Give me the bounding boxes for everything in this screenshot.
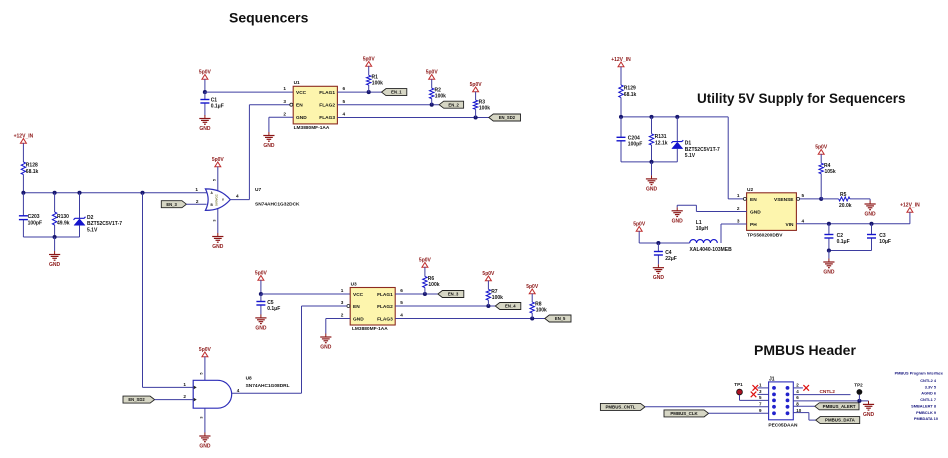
svg-text:VCC: VCC [353, 292, 364, 298]
svg-text:VCC: VCC [296, 90, 307, 96]
svg-text:PMBDATA 10: PMBDATA 10 [914, 416, 938, 421]
svg-text:1: 1 [195, 187, 198, 192]
svg-text:EN: EN [353, 304, 360, 310]
svg-text:4: 4 [802, 218, 805, 223]
svg-text:SN74AHC1G32DCK: SN74AHC1G32DCK [255, 201, 300, 207]
svg-text:J1: J1 [769, 376, 775, 382]
svg-text:5: 5 [400, 300, 403, 305]
svg-text:GND: GND [199, 444, 211, 450]
svg-text:5p0V: 5p0V [482, 271, 495, 277]
svg-text:0.1μF: 0.1μF [211, 103, 224, 109]
svg-text:6: 6 [400, 288, 403, 293]
svg-text:100k: 100k [372, 81, 383, 87]
svg-text:CNTL1 7: CNTL1 7 [920, 397, 936, 402]
svg-text:5p0V: 5p0V [526, 284, 539, 290]
svg-text:5.1V: 5.1V [87, 228, 98, 234]
svg-text:PMBUS Program Interface: PMBUS Program Interface [895, 370, 944, 375]
svg-text:5.1V: 5.1V [685, 153, 696, 159]
svg-text:FLAG2: FLAG2 [377, 304, 393, 310]
svg-text:1: 1 [283, 86, 286, 91]
svg-text:2: 2 [183, 394, 186, 399]
svg-text:AGND 6: AGND 6 [921, 391, 937, 396]
svg-text:FLAG3: FLAG3 [377, 316, 393, 322]
svg-text:EN: EN [750, 197, 757, 203]
svg-text:EN_SD2: EN_SD2 [128, 397, 145, 402]
svg-text:GND: GND [320, 345, 332, 351]
svg-text:EN: EN [296, 103, 303, 109]
svg-text:68.1k: 68.1k [624, 92, 637, 98]
svg-text:100k: 100k [428, 282, 439, 288]
svg-text:2: 2 [341, 313, 344, 318]
svg-text:100k: 100k [435, 93, 446, 99]
svg-text:BZT52C5V1T-7: BZT52C5V1T-7 [87, 221, 122, 227]
svg-text:100k: 100k [492, 295, 503, 301]
svg-text:GND: GND [865, 212, 877, 218]
svg-text:SMBALERT 8: SMBALERT 8 [911, 404, 937, 409]
svg-text:2: 2 [737, 206, 740, 211]
svg-text:1: 1 [341, 288, 344, 293]
svg-text:EN_4: EN_4 [505, 304, 516, 309]
svg-text:12.1k: 12.1k [655, 141, 668, 147]
svg-text:68.1k: 68.1k [26, 169, 39, 175]
svg-text:R131: R131 [655, 134, 667, 140]
svg-text:5: 5 [802, 193, 805, 198]
svg-text:2: 2 [283, 111, 286, 116]
svg-text:49.9k: 49.9k [57, 221, 70, 227]
svg-text:+12V_IN: +12V_IN [611, 57, 631, 63]
svg-text:PMBUS_CLK: PMBUS_CLK [670, 411, 698, 416]
svg-text:D1: D1 [685, 141, 692, 147]
svg-text:U7: U7 [255, 187, 261, 193]
svg-text:100pF: 100pF [28, 221, 42, 227]
svg-text:GND: GND [212, 244, 224, 250]
svg-text:FLAG2: FLAG2 [319, 103, 335, 109]
svg-text:TPS560200DBV: TPS560200DBV [747, 232, 783, 238]
svg-text:1: 1 [737, 193, 740, 198]
svg-text:+12V_IN: +12V_IN [900, 202, 920, 208]
svg-text:PMBUS_CNTL: PMBUS_CNTL [605, 405, 635, 410]
svg-text:CNTL2: CNTL2 [819, 389, 835, 395]
svg-text:PMBUS_DATA: PMBUS_DATA [825, 418, 856, 423]
svg-text:PMBCLK 9: PMBCLK 9 [916, 410, 937, 415]
svg-text:4: 4 [400, 313, 403, 318]
svg-text:EN_5: EN_5 [555, 316, 566, 321]
svg-text:GND: GND [199, 126, 211, 132]
svg-text:5p0V: 5p0V [815, 144, 828, 150]
svg-text:C204: C204 [628, 135, 640, 141]
svg-text:10μH: 10μH [696, 226, 709, 232]
svg-text:5p0V: 5p0V [212, 157, 225, 163]
svg-text:GND: GND [672, 218, 684, 224]
svg-text:5: 5 [200, 372, 204, 374]
svg-text:EN_3: EN_3 [448, 292, 459, 297]
svg-text:0.1μF: 0.1μF [267, 306, 280, 312]
svg-text:U1: U1 [294, 80, 300, 86]
svg-text:GND: GND [255, 325, 267, 331]
svg-text:Utility 5V Supply for Sequence: Utility 5V Supply for Sequencers [697, 91, 906, 106]
svg-text:GND: GND [263, 143, 275, 149]
svg-text:5: 5 [213, 179, 217, 181]
svg-text:GND: GND [646, 186, 658, 192]
svg-text:1: 1 [183, 382, 186, 387]
svg-text:3: 3 [200, 416, 204, 418]
svg-text:105k: 105k [825, 169, 836, 175]
svg-text:EN_2: EN_2 [448, 102, 459, 107]
svg-text:10: 10 [796, 408, 802, 413]
svg-text:0.1μF: 0.1μF [837, 239, 850, 245]
svg-text:VIN: VIN [786, 222, 795, 228]
svg-text:U8: U8 [246, 376, 252, 382]
svg-text:5p0V: 5p0V [426, 69, 439, 75]
svg-text:4: 4 [343, 111, 346, 116]
svg-text:4: 4 [237, 388, 240, 393]
svg-text:TP1: TP1 [734, 382, 743, 387]
svg-text:D2: D2 [87, 215, 94, 221]
svg-text:VSENSE: VSENSE [774, 197, 794, 203]
svg-text:GND: GND [863, 412, 875, 418]
svg-text:5V0VCC: 5V0VCC [215, 193, 219, 206]
svg-text:PEC05DAAN: PEC05DAAN [768, 422, 798, 428]
svg-text:5p0V: 5p0V [633, 221, 646, 227]
svg-text:FLAG1: FLAG1 [319, 90, 335, 96]
svg-text:+12V_IN: +12V_IN [14, 133, 34, 139]
svg-text:FLAG1: FLAG1 [377, 292, 393, 298]
svg-text:2: 2 [196, 199, 199, 204]
svg-text:LM3880MF-1AA: LM3880MF-1AA [294, 125, 330, 131]
svg-text:5p0V: 5p0V [255, 270, 268, 276]
svg-text:3: 3 [341, 300, 344, 305]
svg-text:3: 3 [213, 219, 217, 221]
svg-text:4: 4 [236, 194, 239, 199]
svg-text:BZT52C5V1T-7: BZT52C5V1T-7 [685, 147, 720, 153]
svg-text:5p0V: 5p0V [199, 347, 212, 353]
svg-text:R128: R128 [26, 163, 38, 169]
svg-text:LM3880MF-1AA: LM3880MF-1AA [352, 326, 388, 332]
svg-text:5p0V: 5p0V [199, 69, 212, 75]
svg-text:U3: U3 [351, 282, 357, 288]
svg-text:6: 6 [343, 86, 346, 91]
svg-text:R5: R5 [840, 192, 847, 198]
svg-text:PMBUS Header: PMBUS Header [754, 342, 856, 358]
svg-text:EN_3: EN_3 [166, 202, 177, 207]
svg-text:FLAG3: FLAG3 [319, 115, 335, 121]
svg-text:R130: R130 [57, 214, 69, 220]
svg-text:Sequencers: Sequencers [229, 10, 309, 26]
svg-text:CNTL2 4: CNTL2 4 [920, 378, 937, 383]
svg-text:GND: GND [750, 209, 761, 215]
svg-text:GND: GND [353, 316, 364, 322]
svg-text:EN_SD2: EN_SD2 [499, 115, 516, 120]
svg-text:GND: GND [823, 270, 835, 276]
svg-text:PH: PH [750, 222, 757, 228]
svg-text:U2: U2 [747, 187, 753, 193]
svg-text:XAL4040-103MEB: XAL4040-103MEB [690, 247, 733, 253]
svg-text:C203: C203 [28, 214, 40, 220]
svg-text:EN_1: EN_1 [391, 90, 402, 95]
svg-text:5p0V: 5p0V [419, 257, 432, 263]
svg-text:TP2: TP2 [854, 382, 863, 387]
svg-text:PMBUS_ALERT: PMBUS_ALERT [823, 404, 856, 409]
svg-text:5: 5 [343, 99, 346, 104]
svg-text:5p0V: 5p0V [363, 56, 376, 62]
svg-text:10μF: 10μF [879, 239, 891, 245]
svg-text:100k: 100k [536, 308, 547, 314]
svg-text:GND: GND [49, 262, 61, 268]
svg-text:5p0V: 5p0V [470, 82, 483, 88]
svg-text:22μF: 22μF [665, 256, 677, 262]
svg-text:20.0k: 20.0k [839, 203, 852, 209]
svg-text:100pF: 100pF [628, 142, 642, 148]
svg-text:3.3V 5: 3.3V 5 [925, 384, 937, 389]
svg-text:3: 3 [283, 99, 286, 104]
svg-text:100k: 100k [479, 105, 490, 111]
svg-text:GND: GND [653, 275, 665, 281]
svg-text:SN74AHC1G08DRL: SN74AHC1G08DRL [246, 383, 290, 389]
svg-text:3: 3 [737, 218, 740, 223]
svg-text:GND: GND [296, 115, 307, 121]
svg-text:R129: R129 [624, 86, 636, 92]
